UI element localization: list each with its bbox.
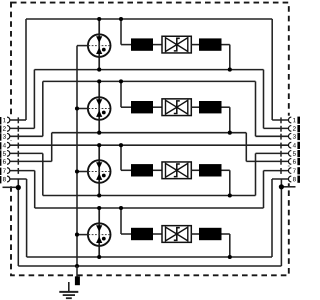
wire: suppressor diode D3 to resistor R3b — [191, 169, 199, 171]
terminal 4' isolating point mark — [280, 143, 282, 149]
wire: terminal 8' riser — [271, 179, 273, 257]
wire: ground collector horizontal — [18, 265, 281, 267]
resistor R3b — [199, 164, 222, 176]
wire: terminal 2 riser — [33, 70, 35, 129]
wire: terminal 5 lead — [10, 152, 43, 154]
wire: chain branch to resistor R4a — [121, 233, 131, 235]
wire: terminal 8 earth tap — [17, 179, 19, 188]
resistor R2b — [199, 101, 222, 113]
node: left earth junction — [16, 185, 21, 190]
wire: ground bus stub to gas tube 4 center electrode — [77, 234, 88, 236]
terminal 4 isolating point mark — [17, 143, 19, 149]
terminal 6' isolating point mark — [280, 159, 282, 165]
wire: pair 4 top conductor — [35, 207, 264, 209]
wire: terminal 5' lead — [256, 152, 289, 154]
node: pair 1 top / chain branch junction — [119, 17, 123, 21]
wire: terminal 7' lead — [264, 170, 289, 172]
node: pair 1 bottom / chain junction — [228, 68, 232, 72]
wire: suppressor diode D2 to resistor R2b — [191, 106, 199, 108]
resistor R2a — [131, 101, 153, 113]
node: ground bus / gas tube 3 stub junction — [75, 169, 79, 173]
wire: pair 1 chain branch from top conductor — [120, 19, 122, 45]
terminal 7 isolating point mark — [17, 168, 19, 174]
wire: ground exit through enclosure — [76, 266, 78, 277]
wire: pair 4 chain drop to bottom conductor — [229, 234, 231, 257]
wire: ground bus vertical — [76, 46, 78, 266]
terminal 1 isolating point mark — [17, 117, 19, 123]
gas discharge tube F2 (3-electrode arrester) — [88, 97, 111, 120]
wire: resistor R3a to suppressor diode D3 — [153, 169, 162, 171]
terminal 5' isolating point mark — [280, 151, 282, 157]
wire: terminal 8 riser — [26, 179, 28, 257]
wire: gas tube 4 vertical (pair 4 a-b through arrester) — [98, 208, 100, 257]
gas discharge tube F1 (3-electrode arrester) — [88, 34, 111, 57]
label halos — [2, 116, 298, 184]
wire: resistor R1b to chain drop — [222, 44, 230, 46]
resistor R4a — [131, 228, 153, 240]
wire: pair 1 top conductor — [26, 18, 272, 20]
terminal 2' isolating point mark — [280, 126, 282, 132]
enclosure dashed border — [11, 3, 289, 276]
wire: gas tube 1 vertical (pair 1 a-b through arrester) — [98, 19, 100, 70]
node: pair 4 bottom / gas tube junction — [97, 255, 101, 259]
node: pair 2 bottom / gas tube junction — [97, 131, 101, 135]
node: pair 2 bottom / chain junction — [228, 131, 232, 135]
terminal 2 isolating point mark — [17, 126, 19, 132]
wire: pair 3 bottom conductor — [43, 195, 256, 197]
terminal 3 isolating point mark — [17, 134, 19, 140]
resistor R3a — [131, 164, 153, 176]
wire: pair 4 bottom conductor — [27, 256, 272, 258]
terminal 3 label and socket arc — [0, 133, 10, 140]
wire: terminal 1 lead — [10, 119, 26, 121]
node: pair 3 bottom / chain junction — [228, 193, 232, 197]
suppressor diode D2 (bidirectional TVS in box) — [162, 99, 191, 116]
wire: terminal 1' lead — [272, 119, 289, 121]
terminal 3' isolating point mark — [280, 134, 282, 140]
wire: terminal 8 lead — [10, 178, 27, 180]
wire: resistor R3b to chain drop — [222, 169, 230, 171]
terminal 2 label and socket arc — [0, 125, 10, 132]
wire: terminal 2 lead — [10, 127, 34, 129]
wire: left earth riser — [17, 188, 19, 267]
ground symbol — [59, 292, 78, 298]
wire: terminal 8' earth tap — [280, 179, 282, 187]
terminal 6' label and socket arc — [288, 158, 300, 165]
terminal 3' label and socket arc — [288, 133, 300, 140]
wire: suppressor diode D4 to resistor R4b — [191, 233, 199, 235]
node: pair 3 bottom / gas tube junction — [97, 193, 101, 197]
node: pair 1 top / gas tube junction — [97, 17, 101, 21]
node: right earth junction — [279, 184, 284, 189]
wire: terminal 6 lead — [10, 160, 52, 162]
wire: terminal 5' riser — [255, 153, 257, 195]
terminal 6 isolating point mark — [17, 159, 19, 165]
wire: pair 2 bottom conductor — [52, 132, 247, 134]
gas discharge tube F4 (3-electrode arrester) — [88, 223, 111, 246]
wire: terminal 7' riser — [263, 171, 265, 208]
wire: terminal 3' lead — [256, 135, 289, 137]
wire: ground bus stub to gas tube 3 center electrode — [77, 171, 88, 173]
wire: terminal 1 riser — [25, 19, 27, 120]
node: pair 2 top / gas tube junction — [97, 79, 101, 83]
node: pair 2 top / chain branch junction — [119, 79, 123, 83]
wire: terminal 7 riser — [34, 171, 36, 208]
wire: pair 2 chain drop to bottom conductor — [229, 107, 231, 133]
wire: terminal 6 riser — [51, 133, 53, 162]
resistor R1b — [199, 38, 222, 50]
gas discharge tube F3 (3-electrode arrester) — [88, 160, 111, 183]
wire: terminal 2' riser — [263, 70, 265, 129]
wire: terminal 6' lead — [246, 160, 288, 162]
terminal 7 label and socket arc — [0, 168, 10, 175]
wire: terminal 6' riser — [245, 133, 247, 162]
wire: pair 2 top conductor — [43, 80, 256, 82]
node: ground bus / collector junction — [75, 264, 79, 268]
wire: resistor R2b to chain drop — [222, 106, 230, 108]
PE plug tab terminal — [75, 276, 80, 285]
node: ground bus / gas tube 2 stub junction — [75, 106, 79, 110]
wire: chain branch to resistor R2a — [121, 106, 131, 108]
resistor R1a — [131, 38, 153, 50]
terminal 4 label and socket arc — [0, 142, 10, 149]
wire: chain branch to resistor R1a — [121, 44, 131, 46]
node: pair 3 top / chain branch junction — [119, 143, 123, 147]
terminal 2' label and socket arc — [288, 125, 300, 132]
terminal 7' isolating point mark — [280, 168, 282, 174]
node: pair 1 bottom / gas tube junction — [97, 68, 101, 72]
terminal 5 isolating point mark — [17, 151, 19, 157]
wire: ground bus stub to gas tube 1 center electrode — [77, 45, 88, 47]
terminal 7' label and socket arc — [288, 167, 300, 174]
wire: terminal 7 lead — [10, 170, 35, 172]
node: pair 4 top / gas tube junction — [97, 206, 101, 210]
wire: resistor R2a to suppressor diode D2 — [153, 106, 162, 108]
wire: resistor R4b to chain drop — [222, 233, 230, 235]
wire: pair 1 bottom conductor — [34, 69, 263, 71]
resistor R4b — [199, 228, 222, 240]
terminal 1' label and socket arc — [288, 117, 300, 124]
wire: left external earth lead — [3, 186, 19, 188]
wire: gas tube 2 vertical (pair 2 a-b through arrester) — [98, 81, 100, 132]
terminal 4' label and socket arc — [288, 142, 300, 149]
wire: pair 3 chain drop to bottom conductor — [229, 170, 231, 195]
suppressor diode D1 (bidirectional TVS in box) — [162, 36, 191, 53]
suppressor diode D4 (bidirectional TVS in box) — [162, 226, 191, 243]
terminal 8 label and socket arc — [0, 176, 10, 183]
wire: resistor R4a to suppressor diode D4 — [153, 233, 162, 235]
wire: terminal 8' lead — [272, 178, 289, 180]
wire: pair 3 chain branch from top conductor — [120, 145, 122, 170]
node: ground bus / gas tube 4 stub junction — [75, 233, 79, 237]
wire: terminal 3 riser — [42, 81, 44, 136]
wire: chain branch to resistor R3a — [121, 169, 131, 171]
wire: pair 1 chain drop to bottom conductor — [229, 45, 231, 70]
wire: right earth riser — [280, 187, 282, 266]
wire: terminal 3' riser — [255, 81, 257, 136]
terminal 5' label and socket arc — [288, 150, 300, 157]
wire: terminal 5 riser — [42, 153, 44, 195]
suppressor diode D3 (bidirectional TVS in box) — [162, 162, 191, 179]
node: pair 3 top / gas tube junction — [97, 143, 101, 147]
terminal 1' isolating point mark — [280, 117, 282, 123]
wire: ground bus stub to gas tube 2 center electrode — [77, 108, 88, 110]
node: pair 4 top / chain branch junction — [119, 206, 123, 210]
wire: terminal 3 lead — [10, 135, 43, 137]
wire: right external earth lead — [281, 186, 295, 188]
wire: pair 3 top conductor (terminal 4 to terminal 4' straight line) — [10, 144, 289, 146]
terminal 1 label and socket arc — [0, 117, 10, 124]
terminal 8' label and socket arc — [288, 176, 300, 183]
ground symbol stem — [68, 282, 70, 291]
wire: terminal 2' lead — [264, 127, 289, 129]
wire: suppressor diode D1 to resistor R1b — [191, 44, 199, 46]
terminal 6 label and socket arc — [0, 158, 10, 165]
node: pair 4 bottom / chain junction — [228, 255, 232, 259]
terminal 5 label and socket arc — [0, 150, 10, 157]
wire: pair 4 chain branch from top conductor — [120, 208, 122, 234]
wire: terminal 1' riser — [271, 19, 273, 120]
wire: gas tube 3 vertical (pair 3 a-b through arrester) — [98, 145, 100, 195]
wire: pair 2 chain branch from top conductor — [120, 81, 122, 107]
wire: resistor R1a to suppressor diode D1 — [153, 44, 162, 46]
